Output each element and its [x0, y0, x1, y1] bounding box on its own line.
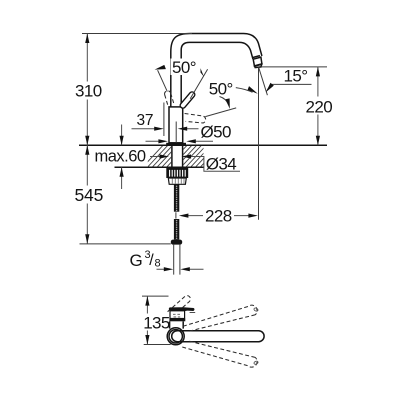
- G3/8 dimension: [157, 268, 204, 270]
- dashed spout swivel up: [183, 305, 257, 331]
- svg-text:135: 135: [143, 314, 170, 333]
- 50deg-2 right arc: [236, 88, 253, 93]
- dimension 310: [86, 34, 88, 146]
- 50deg-1 axis line A: [158, 70, 168, 91]
- swivel joint inner circle: [169, 330, 182, 343]
- svg-text:37: 37: [137, 112, 154, 129]
- svg-text:15°: 15°: [284, 67, 308, 86]
- lever-left extension line: [163, 103, 165, 137]
- solid lever: [183, 95, 192, 106]
- body cylinder: [170, 321, 184, 328]
- MAIN VIEW: [73, 34, 333, 275]
- svg-text:Ø50: Ø50: [201, 122, 231, 141]
- 15deg slanted axis line: [259, 68, 268, 96]
- 15deg arrowhead: [266, 83, 274, 93]
- dashed swivel up tip mark: [254, 307, 259, 311]
- svg-text:310: 310: [75, 82, 102, 101]
- counter top line: [79, 144, 327, 146]
- swivel joint outer circle: [167, 328, 184, 345]
- dimension 220: [317, 67, 319, 145]
- dashed swivel down tip mark: [254, 361, 259, 365]
- 50deg-2 left arrowhead: [225, 98, 229, 109]
- top right reference line: [261, 66, 327, 68]
- G3/8 pipe: [174, 245, 180, 275]
- 135 top reference line: [142, 295, 169, 297]
- hose braid speckles: [176, 185, 178, 239]
- counter hatching left of shank: [140, 140, 235, 170]
- 50deg-2 left arc: [220, 97, 229, 105]
- svg-text:8: 8: [155, 258, 161, 270]
- svg-text:50°: 50°: [172, 58, 196, 77]
- dashed raised lever: [168, 296, 191, 317]
- hose end fitting: [171, 240, 182, 245]
- 50deg-1 label: [171, 59, 201, 76]
- spout tube (plan): [172, 331, 264, 342]
- hose break: [175, 212, 177, 218]
- counter bottom line: [115, 166, 205, 168]
- body: [169, 107, 183, 143]
- svg-text:545: 545: [75, 185, 104, 205]
- braided hose lower: [174, 219, 179, 240]
- dimension diam34: [150, 157, 240, 172]
- body ring: [169, 319, 185, 322]
- aerator divider line: [252, 56, 260, 58]
- svg-text:50°: 50°: [209, 80, 233, 99]
- lever underline mark: [190, 311, 196, 313]
- svg-text:G: G: [130, 251, 143, 270]
- handle base: [170, 311, 185, 319]
- dimension diam50: [146, 140, 214, 142]
- dashed lever left position: [165, 91, 175, 107]
- top reference line left: [82, 33, 192, 35]
- vertical line from spout tip: [258, 67, 260, 219]
- svg-text:Ø34: Ø34: [206, 155, 236, 174]
- mounting nut: [166, 168, 188, 178]
- 50deg-1 axis line B: [190, 69, 207, 99]
- dimension max.60: [121, 125, 123, 190]
- braided hose upper: [174, 184, 179, 211]
- 50deg-2 axis line C: [205, 108, 236, 117]
- 135 bottom reference line: [144, 344, 171, 346]
- lever handle (side view): [169, 307, 195, 311]
- shank below counter: [172, 145, 183, 168]
- dashed lever right position: [185, 114, 206, 124]
- BOTTOM VIEW: [142, 296, 264, 367]
- nut collar: [168, 178, 186, 184]
- base flange: [166, 143, 186, 146]
- aerator tip: [255, 64, 262, 67]
- counter hatching right of shank: [140, 140, 235, 170]
- dimension 545: [86, 145, 88, 244]
- dimension 228: [188, 215, 248, 217]
- dashed spout swivel down: [182, 341, 257, 367]
- svg-text:220: 220: [306, 98, 333, 117]
- 50deg-1 right arrowhead: [195, 63, 204, 76]
- svg-text:228: 228: [205, 207, 232, 226]
- aerator block: [253, 57, 262, 66]
- body centerline: [175, 122, 177, 143]
- 50deg-2 right arrowhead: [248, 86, 258, 94]
- svg-text:max.60: max.60: [95, 147, 146, 165]
- handle base hidden dashes: [173, 314, 182, 317]
- hose end reference line: [80, 243, 171, 245]
- 50deg-1 left arrowhead: [155, 65, 166, 70]
- dimension 135: [146, 296, 148, 344]
- spout outline: [171, 34, 262, 107]
